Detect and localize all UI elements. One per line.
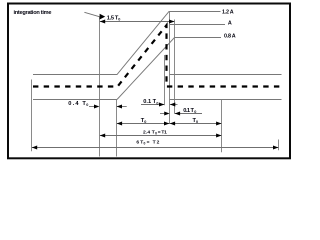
svg-text:0: 0 [118,18,120,22]
svg-text:0: 0 [144,142,146,146]
svg-text:0.1 T: 0.1 T [143,99,156,105]
svg-text:0.8 A: 0.8 A [224,33,236,39]
svg-text:A: A [228,20,232,26]
svg-text:2.4 T: 2.4 T [143,129,155,135]
svg-text:0: 0 [194,110,196,114]
svg-text:= T2: = T2 [147,140,160,146]
svg-text:6 T: 6 T [136,140,143,146]
svg-text:1.2 A: 1.2 A [222,10,234,16]
svg-text:integration time: integration time [14,10,52,16]
svg-text:1.5 T: 1.5 T [107,16,119,22]
svg-text:0: 0 [144,120,146,124]
svg-text:0: 0 [155,131,157,135]
svg-text:0.4 T: 0.4 T [68,101,86,107]
svg-text:= T1: = T1 [158,129,167,135]
svg-text:0: 0 [196,120,198,124]
svg-text:0: 0 [156,101,158,105]
svg-text:0: 0 [86,103,88,107]
svg-text:0.1 T: 0.1 T [183,108,194,114]
